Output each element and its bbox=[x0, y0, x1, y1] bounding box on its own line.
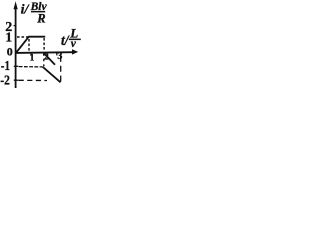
svg-text:0: 0 bbox=[7, 44, 13, 58]
svg-text:2: 2 bbox=[44, 53, 49, 63]
svg-text:1: 1 bbox=[30, 54, 35, 64]
svg-text:v: v bbox=[71, 38, 77, 50]
svg-text:R: R bbox=[36, 11, 45, 25]
svg-text:-1: -1 bbox=[1, 59, 10, 74]
svg-text:1: 1 bbox=[5, 29, 12, 44]
svg-text:-2: -2 bbox=[0, 74, 10, 89]
svg-text:i/: i/ bbox=[21, 3, 30, 18]
svg-text:3: 3 bbox=[57, 51, 62, 62]
svg-text:t/: t/ bbox=[61, 33, 70, 49]
